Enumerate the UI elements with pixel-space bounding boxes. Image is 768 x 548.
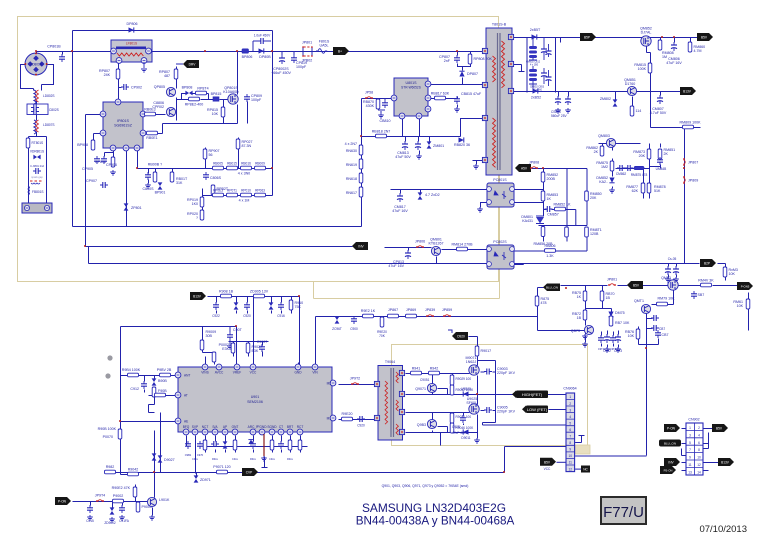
capacitor CM817 (392, 193, 408, 213)
thermistor RT801S (26, 138, 43, 148)
svg-text:20K: 20K (590, 196, 597, 200)
capacitor CP807 snubber (439, 55, 460, 63)
resistor R953 (377, 316, 387, 338)
jumper JP801b (607, 278, 617, 286)
svg-text:C802S: C802S (49, 108, 59, 112)
wire: IP801S pin1 to return (86, 114, 104, 116)
resistor RM850 (585, 191, 602, 201)
svg-text:ZD9002: ZD9002 (104, 521, 116, 525)
svg-text:KA2..: KA2.. (599, 180, 608, 184)
zener ZM801 (427, 141, 445, 148)
svg-text:220pF 1KV: 220pF 1KV (497, 410, 516, 414)
svg-text:JP9T4: JP9T4 (95, 494, 105, 498)
wire: vcc feed drop (299, 297, 301, 368)
capacitor CM887 (691, 291, 704, 299)
PFC controller IP801S (100, 99, 146, 151)
resistor RB76 (625, 329, 640, 339)
net tag BLU_ON (543, 284, 560, 292)
svg-text:JP801: JP801 (302, 41, 312, 45)
wire: QM801 drive row (385, 248, 432, 251)
net tag VCC pin10 (540, 458, 556, 471)
svg-text:QM803: QM803 (598, 134, 610, 138)
net tag D920 (448, 330, 468, 340)
svg-text:100K: 100K (638, 67, 647, 71)
wire: U901 right pin rows (339, 385, 375, 420)
transistor Q802 (152, 101, 175, 117)
svg-text:JP9T2: JP9T2 (350, 377, 360, 381)
svg-text:VCC: VCC (250, 371, 257, 375)
svg-text:2nF: 2nF (444, 59, 451, 63)
resistor R9027 (246, 343, 262, 353)
svg-text:SVP: SVP (192, 425, 198, 429)
wire: bridge top lead (36, 52, 38, 54)
capacitor C922 (212, 302, 220, 318)
resistor RM879 (657, 297, 676, 306)
svg-text:UA5L: UA5L (320, 44, 329, 48)
svg-text:KA431: KA431 (522, 219, 533, 223)
svg-text:BP806: BP806 (242, 55, 253, 59)
capacitor C9B2 (197, 441, 204, 457)
svg-text:R941: R941 (412, 367, 421, 371)
svg-text:RB7 10K: RB7 10K (615, 321, 630, 325)
capacitor CB87b (651, 325, 665, 331)
gnd caps right of tan box (582, 334, 617, 351)
wire: RP907 stub (205, 148, 207, 169)
svg-text:11: 11 (569, 461, 573, 465)
svg-text:47uF 16V: 47uF 16V (388, 264, 404, 268)
inductor LD807S (34, 120, 55, 134)
resistor RB75 (572, 291, 587, 301)
labels gate lower (450, 413, 474, 433)
capacitor C9005 hv (484, 406, 516, 414)
svg-text:1B: 1B (606, 296, 611, 300)
wire: U901 left pin2 row (149, 393, 177, 413)
svg-text:RB0E3: RB0E3 (144, 108, 155, 112)
svg-text:RP0T1: RP0T1 (227, 189, 237, 193)
svg-text:P9BV 2B: P9BV 2B (157, 368, 172, 372)
wire: AC left leg (21, 65, 34, 91)
resistor RM880 (698, 279, 714, 287)
diode DS802 (530, 28, 541, 40)
svg-text:ZP801: ZP801 (131, 206, 142, 210)
svg-text:P9002: P9002 (113, 494, 123, 498)
resistor RB870 (363, 98, 380, 109)
resistor R904 (122, 368, 141, 377)
wire: opto PC801S input gnd (481, 203, 490, 208)
inductor LD802S (34, 90, 55, 104)
resistor R941 (411, 367, 422, 375)
svg-text:RP8E2-400: RP8E2-400 (185, 103, 204, 107)
wire: opto PC801S collector (514, 189, 544, 191)
resistor RM873 (633, 149, 650, 159)
svg-text:RP0E3: RP0E3 (213, 189, 223, 193)
svg-text:AP: AP (223, 425, 227, 429)
svg-text:1N62J: 1N62J (466, 360, 477, 364)
svg-text:CP907: CP907 (86, 179, 97, 183)
wire: snubber caps hv (464, 361, 496, 426)
capacitor CM851 (656, 157, 667, 171)
svg-text:47uF 400V: 47uF 400V (452, 431, 468, 435)
svg-text:B5V: B5V (716, 427, 723, 431)
zener ZD971 (194, 475, 211, 482)
zener ZD9002 (104, 507, 116, 525)
svg-text:R9xx: R9xx (250, 457, 257, 461)
capacitor C9B1 (185, 441, 192, 457)
svg-text:C9xx: C9xx (269, 457, 276, 461)
resistor RM876 (631, 166, 648, 177)
shunt DM801 KA431 (521, 215, 544, 224)
svg-text:4 x 1B0: 4 x 1B0 (530, 64, 539, 67)
svg-text:ZM802: ZM802 (600, 97, 611, 101)
svg-text:JP808: JP808 (529, 161, 539, 165)
svg-text:SGND: SGND (267, 425, 277, 429)
svg-text:C9T2: C9T2 (598, 347, 605, 351)
svg-text:B5P: B5P (584, 36, 590, 40)
svg-text:RP8T4: RP8T4 (197, 87, 208, 91)
wire: IC bottom pin2 feedback (126, 149, 128, 227)
svg-text:FGND: FGND (257, 425, 267, 429)
net tag B5V cn right (712, 424, 728, 432)
svg-text:B90B: B90B (158, 379, 167, 383)
svg-text:100pF: 100pF (251, 98, 262, 102)
resistor R9052 (128, 468, 139, 476)
wire: 13V cap stubs (559, 92, 661, 107)
svg-text:C800S: C800S (143, 187, 155, 191)
resistor BP806s (242, 49, 253, 59)
connector CN9064 (563, 387, 576, 472)
capacitor C91A (119, 505, 130, 523)
resistor RP908 (77, 140, 95, 150)
svg-text:JP801: JP801 (607, 278, 617, 282)
jumper JP801 (302, 41, 313, 63)
capacitor CS806 (551, 96, 571, 118)
svg-text:P-ON: P-ON (667, 427, 676, 431)
capacitor C806 (203, 172, 222, 180)
svg-text:LD802S: LD802S (43, 94, 55, 98)
svg-text:T801S-B: T801S-B (492, 23, 507, 27)
resistor P0002 (219, 343, 235, 353)
wire: RPB2T stub (213, 187, 215, 196)
wire: B2P branch (685, 264, 726, 281)
svg-text:DM75: DM75 (615, 311, 625, 315)
gnd at T801S bottom (473, 164, 479, 169)
net tag LOW FET (522, 406, 548, 414)
transistor QM803 (598, 134, 615, 148)
red sense wire (263, 434, 265, 456)
svg-text:RB806: RB806 (545, 244, 556, 248)
resistor BP806b (95, 157, 116, 175)
wire: U901 left pin3 row (121, 421, 177, 423)
svg-text:BLU_ON: BLU_ON (664, 442, 676, 446)
wire: RM809 branch (651, 92, 701, 128)
svg-text:1.3K: 1.3K (546, 254, 554, 258)
svg-text:Q9071: Q9071 (415, 387, 426, 391)
svg-text:DJ7AL: DJ7AL (641, 31, 652, 35)
wire: cn902 stubs (682, 429, 719, 471)
resistor RP807 (99, 69, 120, 79)
svg-text:9: 9 (569, 448, 571, 452)
svg-text:1K: 1K (547, 197, 552, 201)
svg-text:VDR801S: VDR801S (30, 150, 44, 154)
wire: B5V switch row (561, 285, 738, 287)
wire: AC right leg (42, 65, 54, 91)
diode DS852 (531, 88, 541, 99)
svg-text:SF60U: SF60U (466, 401, 478, 405)
resistor R952 (361, 309, 376, 318)
svg-text:M1: M1 (327, 417, 332, 421)
capacitor CP902 (121, 84, 142, 90)
svg-text:430K: 430K (366, 104, 375, 108)
svg-text:GND: GND (294, 371, 302, 375)
svg-text:RN617: RN617 (346, 191, 357, 195)
wire: IC bottom pin3 (137, 149, 139, 169)
net tag BLU_ON cn (659, 440, 681, 447)
diode DM75 (608, 311, 624, 317)
resistor RM860 (688, 42, 705, 53)
svg-text:C806S: C806S (210, 176, 222, 180)
capacitor CM813 (395, 141, 411, 159)
svg-text:JP807: JP807 (688, 161, 698, 165)
resistor R9009 (200, 330, 216, 350)
resistor R942 (429, 367, 440, 375)
svg-text:C9007: C9007 (257, 340, 268, 344)
capacitor C920i (357, 416, 365, 428)
svg-text:RP063: RP063 (255, 189, 265, 193)
svg-text:CN902: CN902 (688, 418, 699, 422)
svg-text:C91FA: C91FA (119, 519, 130, 523)
capacitor CP819 (291, 51, 307, 69)
net tag B13V cn right (718, 458, 734, 466)
diode BP808x (182, 86, 193, 96)
wire: T801S bottom pin gnd (473, 161, 485, 165)
capacitor CP905 (82, 156, 100, 171)
svg-text:D9027: D9027 (164, 458, 175, 462)
capacitor CB77 (655, 330, 669, 338)
svg-text:RM852 1K: RM852 1K (554, 203, 572, 207)
svg-text:JP58: JP58 (365, 91, 373, 95)
svg-text:CM862: CM862 (616, 172, 627, 176)
capacitor CP813 (388, 250, 411, 268)
resistor RB01T (170, 172, 188, 185)
svg-text:M2: M2 (327, 382, 332, 386)
svg-text:BLU_ON: BLU_ON (546, 286, 558, 290)
gnd QB73 (582, 342, 588, 347)
svg-text:RB015: RB015 (227, 162, 237, 166)
resistor RB875 (535, 296, 549, 306)
gnd under IC (261, 456, 267, 461)
svg-text:RN619: RN619 (346, 163, 357, 167)
svg-text:R9017: R9017 (481, 349, 492, 353)
gnd half-bridge (474, 438, 480, 443)
net tag B+ (333, 47, 349, 55)
svg-text:KTB1267: KTB1267 (429, 242, 444, 246)
svg-text:QP805: QP805 (154, 85, 165, 89)
resistor RP027 (236, 139, 252, 149)
resistor RM853 (541, 191, 558, 201)
svg-text:87.3N: 87.3N (242, 144, 252, 148)
zener D908 (152, 378, 168, 385)
capacitor CB83 (614, 334, 622, 353)
resistor RP907g (144, 108, 155, 116)
svg-text:B13V: B13V (683, 90, 692, 94)
resistor R9071 (213, 465, 230, 474)
wire: filter mid links (29, 101, 47, 204)
capacitor C907 (227, 326, 243, 349)
svg-text:7: 7 (689, 448, 691, 452)
wire: C800S lead (148, 169, 150, 184)
wire: QB73 cluster (586, 286, 619, 348)
resistor RM852-2 (554, 203, 572, 211)
diode DM852 (596, 176, 614, 184)
svg-text:70K: 70K (379, 334, 386, 338)
wire: IC bottom pin1 (105, 149, 114, 159)
svg-text:A5V: A5V (521, 167, 528, 171)
svg-text:CT: CT (279, 425, 283, 429)
opto PC802S (487, 240, 515, 269)
svg-text:C970: C970 (197, 453, 204, 457)
diode DP904 (155, 182, 166, 194)
svg-text:478: 478 (541, 301, 547, 305)
wire: PC802S outputs (514, 251, 588, 265)
svg-text:B5V: B5V (701, 36, 708, 40)
svg-text:CP905: CP905 (82, 167, 93, 171)
svg-text:HIGH(FET): HIGH(FET) (522, 392, 543, 397)
svg-text:75K: 75K (295, 305, 302, 309)
capacitor CP815 (454, 92, 482, 112)
svg-text:2K: 2K (594, 150, 599, 154)
diode DP808 boost (259, 48, 272, 59)
svg-text:560uF 25V: 560uF 25V (551, 114, 567, 118)
svg-text:114: 114 (636, 109, 642, 113)
gray mounting dot 1 (107, 355, 112, 360)
svg-text:CP801B: CP801B (47, 45, 61, 49)
svg-text:C9B1: C9B1 (185, 453, 192, 457)
net tag INV cn (664, 458, 680, 466)
svg-text:P0070: P0070 (103, 435, 113, 439)
net tag NC pin11 (581, 466, 590, 473)
resistor RP019 (187, 197, 204, 207)
resistor RM815 (634, 63, 651, 73)
capacitor C920b (243, 302, 251, 318)
jumper JP859 (442, 308, 452, 317)
svg-text:CP906: CP906 (106, 163, 117, 167)
net tag OVP (242, 468, 258, 476)
capacitor block C802S (27, 104, 59, 115)
version box F77/U (601, 497, 646, 524)
wire: AC mains top rail (37, 51, 488, 53)
wire: opto PC801S input net (391, 190, 490, 194)
diode DP809 bypass (253, 34, 271, 52)
diode DP806 (127, 22, 138, 33)
svg-text:56: 56 (209, 153, 213, 157)
svg-text:RM4V 3K: RM4V 3K (698, 279, 714, 283)
svg-text:RB0E1: RB0E1 (146, 136, 157, 140)
wire: blu-on drop (538, 288, 585, 331)
svg-text:BN44-00438A y BN44-00468A: BN44-00438A y BN44-00468A (356, 515, 515, 528)
svg-text:1: 1 (689, 426, 691, 430)
svg-text:AE: AE (184, 420, 188, 424)
svg-text:E3K: E3K (252, 349, 259, 353)
resistor RP020 (187, 210, 204, 220)
wire: vref caps row (229, 342, 269, 357)
jumper JP809 (683, 176, 698, 184)
wire: cn9064 pin10 stub (557, 461, 567, 463)
capacitor CP801B (47, 45, 65, 63)
wire: return bus upper (73, 226, 362, 228)
zener ZM802 (600, 97, 618, 107)
resistor RM855 (565, 227, 569, 237)
svg-text:P-ON5: P-ON5 (741, 285, 750, 289)
svg-text:FB801S: FB801S (32, 190, 44, 194)
gray mounting dot 2 (105, 373, 110, 378)
svg-text:RB820 36: RB820 36 (454, 143, 470, 147)
capacitor CP907 (86, 179, 108, 188)
svg-text:DP807: DP807 (467, 72, 478, 76)
svg-text:R942: R942 (430, 367, 439, 371)
svg-text:2xB5T: 2xB5T (530, 28, 541, 32)
svg-text:+66uF 450V: +66uF 450V (271, 71, 291, 75)
jumper JP806 (415, 240, 425, 248)
zener ZD96T (332, 316, 342, 331)
svg-text:47uF 16V: 47uF 16V (392, 209, 408, 213)
svg-text:4.7uF 50V: 4.7uF 50V (650, 111, 667, 115)
svg-text:B+: B+ (338, 50, 342, 54)
svg-text:C920: C920 (243, 314, 251, 318)
transistor Q801 (154, 85, 176, 97)
resistor RM856 (534, 227, 554, 247)
zener ZD907i (269, 302, 274, 309)
wire: B13V sense divider (748, 293, 750, 331)
svg-text:R90E2 47K: R90E2 47K (112, 486, 131, 490)
transistor QM851 (624, 78, 636, 96)
svg-text:CN9064: CN9064 (563, 387, 576, 391)
bridge rectifier BD801S (24, 52, 47, 75)
svg-text:NC: NC (583, 468, 588, 472)
wire: T9064 gate row lower (406, 412, 470, 414)
svg-text:CB815 47uF: CB815 47uF (461, 92, 482, 96)
wire: half-bridge stack (477, 376, 479, 405)
svg-text:U801S: U801S (406, 81, 418, 85)
wire: gate drive sub upper (433, 374, 453, 395)
diode D9009 (461, 387, 471, 397)
capacitor CB810 (378, 98, 391, 123)
svg-text:C92B: C92B (452, 425, 460, 429)
svg-text:NCT: NCT (202, 425, 209, 429)
svg-text:10K: 10K (729, 272, 736, 276)
svg-text:RM875 478: RM875 478 (631, 173, 648, 177)
capacitor CM852b (415, 141, 422, 159)
svg-text:S/A: S/A (212, 425, 218, 429)
jumper JP914 (95, 494, 105, 502)
transistor QD972 (417, 419, 437, 428)
jumper JP858 (365, 91, 373, 99)
svg-text:E3K: E3K (222, 347, 229, 351)
svg-text:R982: R982 (106, 465, 115, 469)
svg-text:14: 14 (697, 470, 701, 474)
net tag B5V left (627, 281, 643, 289)
wire: T9064 bottom pin (406, 415, 478, 446)
mosfet Q9071 (466, 356, 480, 375)
wire: RP027 stub (238, 138, 240, 169)
svg-text:JP859: JP859 (442, 308, 452, 312)
tan frame: primary PFC block (18, 17, 499, 282)
svg-text:R9029 100: R9029 100 (456, 377, 472, 381)
feedback row 4x1M resistors (213, 189, 266, 203)
wire: bulk node vertical (272, 31, 274, 196)
svg-text:PC801S: PC801S (493, 178, 507, 182)
wire: A5V feedback chain (532, 169, 588, 252)
varistor VDR801S (30, 150, 44, 160)
